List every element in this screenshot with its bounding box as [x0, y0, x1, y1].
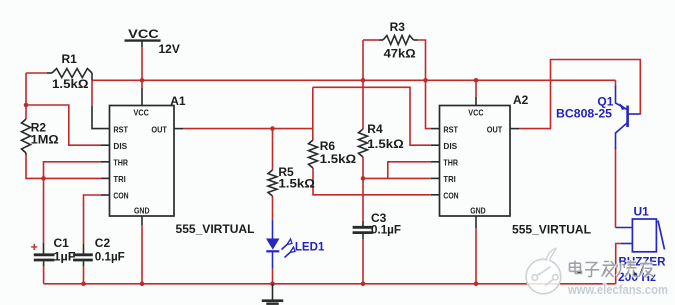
svg-text:CON: CON	[113, 191, 128, 201]
svg-text:RST: RST	[113, 124, 128, 134]
svg-text:555_VIRTUAL: 555_VIRTUAL	[176, 222, 255, 236]
svg-text:1.5kΩ: 1.5kΩ	[278, 177, 315, 191]
svg-text:U1: U1	[634, 205, 650, 219]
svg-text:TRI: TRI	[443, 174, 455, 184]
svg-text:THR: THR	[443, 158, 458, 168]
svg-text:1.5kΩ: 1.5kΩ	[367, 137, 404, 151]
svg-text:1.5kΩ: 1.5kΩ	[52, 77, 89, 91]
svg-text:VCC: VCC	[468, 107, 483, 117]
svg-text:12V: 12V	[159, 42, 180, 56]
svg-text:47kΩ: 47kΩ	[384, 47, 416, 61]
svg-text:VCC: VCC	[134, 107, 149, 117]
svg-text:OUT: OUT	[487, 124, 503, 134]
svg-text:A2: A2	[513, 93, 529, 107]
svg-text:1MΩ: 1MΩ	[31, 133, 59, 147]
svg-text:LED1: LED1	[295, 240, 325, 254]
svg-text:1µF: 1µF	[54, 250, 76, 264]
svg-text:C1: C1	[54, 236, 70, 250]
svg-text:DIS: DIS	[443, 141, 457, 151]
svg-text:www.elecfans.com: www.elecfans.com	[567, 282, 668, 297]
svg-text:VCC: VCC	[128, 27, 159, 41]
svg-text:R6: R6	[320, 139, 336, 153]
svg-text:GND: GND	[470, 206, 486, 216]
svg-text:CON: CON	[443, 191, 458, 201]
svg-text:0.1µF: 0.1µF	[371, 223, 401, 237]
svg-text:TRI: TRI	[113, 174, 125, 184]
svg-text:R4: R4	[367, 122, 383, 136]
svg-text:OUT: OUT	[151, 124, 167, 134]
svg-text:1.5kΩ: 1.5kΩ	[320, 152, 357, 166]
svg-text:R1: R1	[62, 52, 78, 66]
svg-text:R3: R3	[390, 20, 406, 34]
svg-text:A1: A1	[170, 94, 186, 108]
svg-text:THR: THR	[113, 158, 128, 168]
svg-text:0.1µF: 0.1µF	[95, 250, 125, 264]
svg-text:RST: RST	[443, 124, 458, 134]
svg-text:C2: C2	[95, 236, 111, 250]
svg-text:GND: GND	[134, 206, 150, 216]
svg-text:BC808-25: BC808-25	[556, 107, 612, 121]
svg-text:DIS: DIS	[113, 141, 127, 151]
svg-text:555_VIRTUAL: 555_VIRTUAL	[512, 223, 591, 237]
